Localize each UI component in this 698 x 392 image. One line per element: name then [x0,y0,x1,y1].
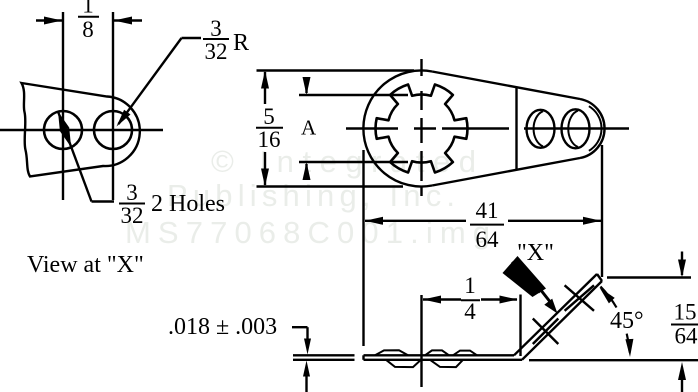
dimension 5/16 arrows [261,71,269,187]
svg-text:3: 3 [126,180,138,205]
main view vertical center line [420,59,422,196]
break zigzag marks on strip [375,350,477,367]
thickness label .018 +- .003 [168,314,277,340]
main view horizontal center line [346,127,629,129]
bent arm end cap [597,274,602,281]
svg-text:45°: 45° [610,308,644,334]
svg-text:64: 64 [476,227,500,252]
svg-text:16: 16 [258,127,281,152]
left view vertical center line / extension (right hole) [112,12,114,200]
svg-text:8: 8 [82,17,94,42]
svg-text:View at "X": View at "X" [27,252,144,278]
svg-text:.018 ± .003: .018 ± .003 [168,314,277,340]
left view hole 2 (right) [94,111,132,149]
bent arm outer line [514,274,597,355]
X view arrow (solid) [503,256,558,314]
leader for 3/32 2 Holes [58,112,114,202]
svg-text:R: R [233,30,249,56]
svg-text:41: 41 [476,198,499,223]
45 degree arc with arrows [600,287,634,358]
bent arm inner line [522,281,602,360]
svg-text:32: 32 [121,203,144,228]
dimension 1/8 arrows [36,17,142,25]
dimension 1/4 [423,296,518,304]
cross mark 2 on arm [565,285,594,311]
svg-text:1: 1 [82,0,94,18]
extension line 41/64 left (projection) [362,150,364,360]
taper bottom line [432,158,580,186]
right end inner arc (double line) [589,106,602,151]
watermark [125,144,490,250]
left view horizontal center line [0,129,163,131]
label 45 deg [610,308,644,334]
extension line top (5/16) [257,69,415,71]
strip main piece top line [364,354,515,356]
extension line bottom (5/16) [257,185,404,187]
svg-text:32: 32 [205,39,228,64]
svg-text:3: 3 [210,16,222,41]
label X at arrow [517,240,554,266]
dimension 5/16 label [256,104,283,152]
splined hole [376,85,468,173]
strip main piece bottom line [364,359,523,361]
svg-text:64: 64 [675,324,698,349]
svg-text:"X": "X" [517,240,554,266]
dimension 1/4 label [461,273,480,324]
right end outer arc [580,99,605,158]
strip left broken piece [293,355,355,360]
extension line 1/4 right (bend) [519,295,521,357]
label A [301,116,317,140]
extension line 41/64 right (projection) [601,145,603,277]
left view hole 1 (left) [44,111,82,149]
small hole right in end [562,109,590,148]
extension line 15/64 bottom [529,359,698,361]
small hole left in end [527,110,555,148]
svg-text:15: 15 [674,300,697,325]
main view boss circle arc [363,70,432,186]
dimension 15/64 label [671,300,698,349]
svg-text:5: 5 [263,104,275,129]
extension line A top [299,94,408,96]
left view part outline [22,83,140,177]
leader for 3/32 R [117,38,202,127]
cross mark 1 on arm [533,319,559,345]
svg-text:4: 4 [464,299,476,324]
taper top line [432,72,580,100]
left view vertical center line / extension (left hole) [62,12,64,200]
svg-text:2 Holes: 2 Holes [151,191,225,217]
svg-text:A: A [301,116,317,140]
label View at X [27,252,144,278]
extension line 15/64 top [607,276,691,278]
transition line [515,87,517,170]
label 3/32 2 Holes [119,180,225,228]
dimension 15/64 arrows (outside) [678,252,686,392]
label 3/32 R [203,16,249,64]
extension line A bottom [299,161,408,163]
svg-text:1: 1 [464,273,476,298]
thickness leader [292,327,311,392]
dimension 1/8 label [78,0,99,42]
dimension 41/64 label [470,198,504,252]
dimension A arrows (outside) [303,77,311,180]
bottom view vertical center line [420,295,422,387]
dimension 41/64 arrows [365,217,601,225]
